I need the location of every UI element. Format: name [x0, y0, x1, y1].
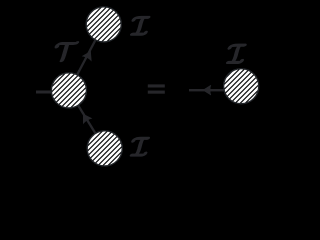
equals sign — [148, 84, 165, 93]
arrowhead on right free leg pointing left — [203, 85, 211, 95]
wire: free left leg of tensor T — [36, 91, 69, 94]
tensor T (middle hatched circle) — [51, 73, 86, 108]
tensor I (top hatched circle) — [86, 7, 121, 42]
arrowhead on lower leg pointing to tensor T — [79, 112, 92, 124]
wire: leg from bottom tensor I up to tensor T — [69, 90, 105, 148]
label I (mathcal I) for top tensor — [131, 17, 150, 35]
tensor I (right hatched circle) — [224, 69, 259, 104]
arrowhead on upper leg pointing to top tensor I — [82, 49, 95, 61]
label I (mathcal I) for bottom tensor — [130, 138, 149, 156]
label T (mathcal T) for middle tensor — [55, 42, 78, 62]
wire: free left leg of right tensor I — [189, 89, 241, 91]
wire: leg from tensor T up to top tensor I — [69, 24, 104, 90]
tensor I (bottom hatched circle) — [87, 131, 122, 166]
label I (mathcal I) for right tensor — [227, 44, 246, 63]
